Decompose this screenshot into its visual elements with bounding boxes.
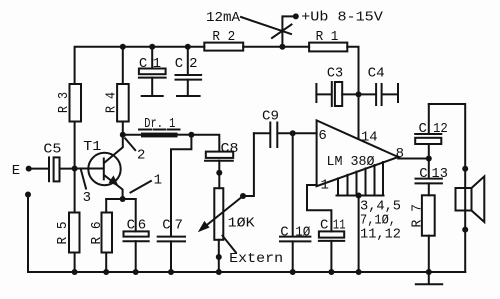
node junction C11/rail — [328, 269, 334, 275]
svg-text:C: C — [139, 56, 147, 72]
svg-text:R 3: R 3 — [56, 92, 72, 113]
svg-text:C: C — [419, 121, 427, 137]
node +Ub terminal dot — [293, 13, 299, 19]
T1 collector — [105, 135, 123, 163]
label 3 leader — [81, 170, 86, 189]
wire base node down to R5 — [74, 169, 76, 213]
svg-text:+Ub 8-15V: +Ub 8-15V — [301, 10, 383, 26]
potentiometer 10K body — [214, 188, 223, 240]
svg-text:12mA: 12mA — [206, 10, 241, 26]
wire output pin8 — [398, 158, 429, 160]
wire C10 vertical — [292, 133, 294, 236]
wire emitter node horizontal — [106, 198, 136, 200]
svg-text:6: 6 — [318, 128, 326, 144]
ground bar under C2 — [177, 95, 200, 97]
svg-text:Extern: Extern — [229, 251, 283, 267]
op-amp U1 LM380 triangle — [317, 120, 399, 186]
svg-text:C9: C9 — [262, 109, 279, 125]
wire R7 to rail — [428, 236, 430, 272]
node junction base — [72, 166, 78, 172]
node junction R4/rail — [120, 44, 126, 50]
wire rail R2 to R1 — [243, 46, 309, 48]
capacitor C13 — [428, 159, 430, 179]
resistor R6 — [102, 213, 113, 253]
resistor R4 — [117, 84, 129, 122]
svg-text:C5: C5 — [43, 141, 61, 157]
node lower input terminal — [25, 192, 31, 198]
node junction pot/rail — [216, 269, 222, 275]
svg-text:3: 3 — [83, 190, 91, 206]
svg-text:R 7: R 7 — [410, 204, 426, 228]
svg-text:C: C — [175, 56, 183, 72]
svg-text:8: 8 — [396, 146, 404, 162]
wire lower input to rail — [27, 195, 29, 273]
inductor Dr.1 bar — [141, 133, 178, 138]
node junction gndwire/rail — [356, 269, 362, 275]
svg-text:E: E — [12, 163, 20, 179]
capacitor C5 — [48, 157, 50, 181]
wire C12 top to speaker column — [429, 104, 465, 188]
wire gnd-bus to bottom rail — [358, 196, 360, 273]
svg-text:11,12: 11,12 — [360, 227, 401, 243]
node junction C7/rail — [168, 269, 174, 275]
wire speaker bottom to rail — [464, 211, 466, 273]
resistor R7 — [422, 195, 435, 235]
capacitor C11 — [319, 231, 344, 237]
svg-text:R 5: R 5 — [55, 222, 71, 245]
svg-text:1: 1 — [153, 56, 161, 72]
capacitor C10 — [280, 236, 310, 238]
wire R4 bottom to Dr1 node — [122, 122, 124, 135]
svg-text:6: 6 — [138, 217, 146, 233]
wire bottom rail — [28, 271, 465, 273]
svg-text:R 6: R 6 — [89, 222, 105, 245]
node wiper dot — [240, 193, 246, 199]
svg-text:13: 13 — [432, 166, 448, 182]
node junction R7/rail — [426, 269, 432, 275]
svg-text:C: C — [162, 217, 170, 233]
capacitor C7 — [158, 236, 185, 238]
label Extern leader — [223, 236, 236, 253]
capacitor C2 — [187, 47, 189, 75]
wire emitter to C6 — [135, 199, 137, 231]
resistor R1 — [309, 43, 347, 52]
svg-text:C4: C4 — [368, 66, 385, 82]
wire +Ub stub vertical — [282, 16, 295, 47]
svg-text:1: 1 — [321, 177, 329, 193]
svg-text:2: 2 — [137, 147, 145, 163]
wire E to C5 — [29, 168, 48, 170]
node junction C8/pot — [216, 170, 222, 176]
wire base to transistor — [75, 168, 103, 170]
wire choke node to C8 corner — [191, 135, 219, 152]
svg-text:C: C — [127, 217, 135, 233]
wire pot bottom to rail — [218, 240, 220, 272]
wire pin1 to C11 — [307, 185, 331, 231]
svg-text:1: 1 — [154, 173, 162, 189]
node junction output — [426, 156, 432, 162]
capacitor C1 — [151, 47, 153, 69]
transistor T1 — [88, 153, 120, 185]
ground symbol bottom — [428, 272, 430, 284]
capacitor C12 — [428, 144, 430, 159]
label 2 leader — [125, 138, 135, 150]
svg-text:R 2: R 2 — [212, 29, 235, 45]
resistor R5 — [69, 213, 80, 253]
wire choke node down to C7 — [171, 135, 191, 237]
T1 emitter — [105, 176, 123, 199]
resistor R3 — [70, 84, 82, 122]
node speaker top terminal — [462, 166, 468, 172]
svg-text:C3: C3 — [327, 66, 343, 82]
wire to choke — [123, 134, 141, 136]
speaker LS — [464, 188, 466, 211]
svg-text:7: 7 — [175, 217, 183, 233]
wire R4 top — [122, 47, 124, 84]
node extern terminal — [216, 254, 222, 260]
ground pins hatch of U1 — [337, 178, 339, 195]
wire choke to node — [178, 134, 192, 136]
svg-text:LM 38Ø: LM 38Ø — [327, 154, 375, 170]
label 1 leader — [131, 181, 151, 193]
svg-text:11: 11 — [333, 218, 346, 234]
wire 12mA leader / X-mark stroke 1 — [241, 17, 291, 34]
node junction collector/R4/Dr1 — [120, 132, 126, 138]
wire R5 to rail — [74, 253, 76, 273]
node junction R5/rail — [72, 269, 78, 275]
capacitor C6 — [124, 231, 149, 236]
svg-text:2: 2 — [189, 56, 197, 72]
label Dr. 1 underline — [139, 129, 180, 131]
node speaker bottom terminal — [462, 227, 468, 233]
node junction C3/C4/pin14 — [356, 91, 362, 97]
svg-text:1ØK: 1ØK — [228, 216, 256, 232]
node junction X/rail — [279, 44, 285, 50]
node junction gnd-bus — [356, 193, 362, 199]
svg-text:C: C — [320, 218, 328, 234]
svg-text:12: 12 — [433, 121, 448, 137]
capacitor C9 — [254, 132, 269, 134]
wire R6 to rail — [105, 253, 107, 273]
ground bar under C1 — [142, 95, 163, 97]
svg-text:T1: T1 — [83, 139, 101, 155]
svg-text:14: 14 — [361, 130, 378, 146]
svg-text:R 1: R 1 — [316, 29, 339, 45]
svg-text:C: C — [419, 166, 427, 182]
node junction pin6/C10 — [290, 130, 296, 136]
wire rail R1 to pin14 column corner — [347, 47, 358, 95]
node input terminal E — [26, 166, 32, 172]
node junction C1/rail — [149, 44, 155, 50]
X-mark stroke 2 (current break symbol) — [272, 25, 292, 39]
capacitor C8 — [206, 152, 233, 158]
node junction R6/rail — [103, 269, 109, 275]
svg-text:C8: C8 — [221, 141, 239, 157]
resistor R2 — [204, 43, 243, 51]
node junction C10/rail — [290, 269, 296, 275]
ground bar left of C3 — [315, 84, 317, 102]
wire R3 bottom to base node — [74, 122, 76, 169]
wire emitter to R6 — [105, 199, 107, 213]
node junction after choke — [188, 132, 194, 138]
wire top rail left (R3/R4/C1/C2 to R2) — [75, 47, 205, 84]
wire wiper to C9 riser — [243, 133, 254, 196]
svg-text:R 4: R 4 — [104, 92, 120, 113]
ground bar right of C4 — [397, 84, 399, 102]
wiper arrow of pot — [203, 196, 244, 229]
node emitter junction — [120, 196, 126, 202]
node junction C2/rail — [185, 44, 191, 50]
wire pin14 vertical — [358, 94, 360, 138]
node junction C6/rail — [133, 269, 139, 275]
T1 emitter arrow — [109, 175, 119, 186]
svg-text:C: C — [280, 224, 288, 240]
svg-text:1Ø: 1Ø — [295, 224, 310, 240]
capacitor C4 — [359, 93, 376, 95]
capacitor C3 — [316, 93, 330, 95]
